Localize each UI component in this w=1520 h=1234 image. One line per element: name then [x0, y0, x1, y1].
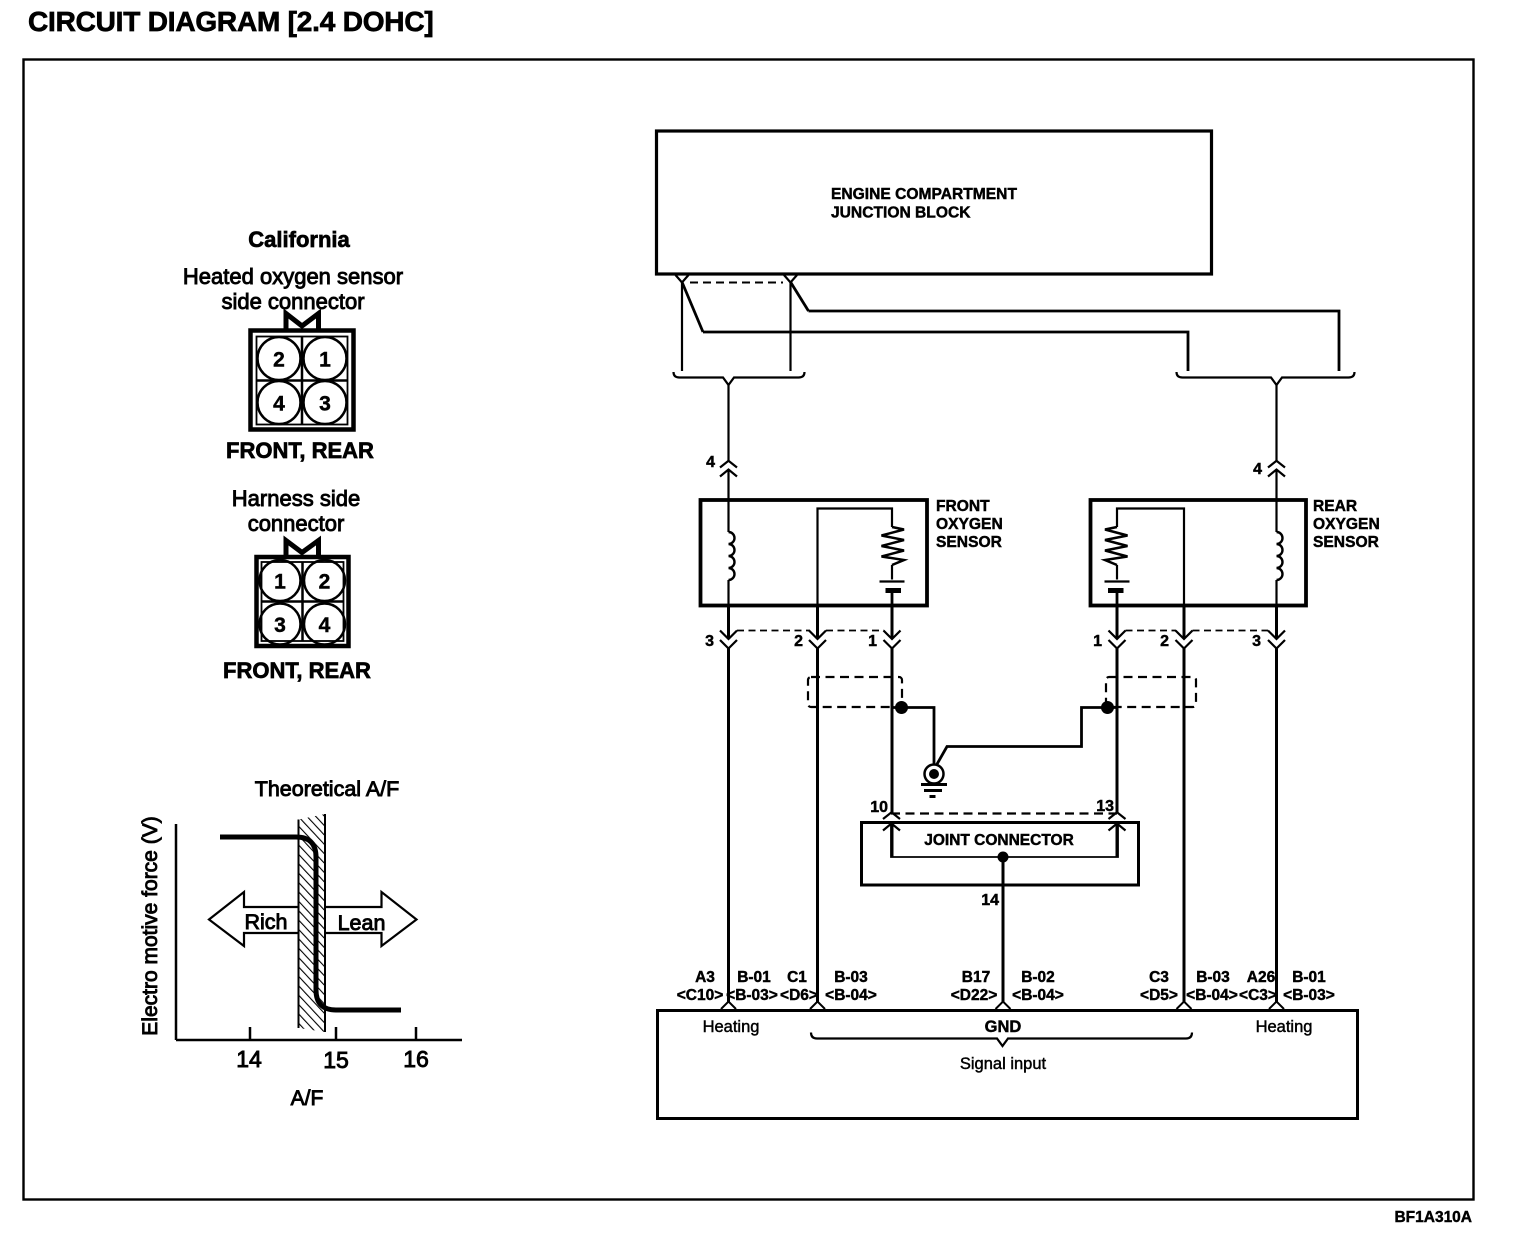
x tick 15: [323, 1027, 349, 1073]
heater element (rear sensor coil): [1277, 498, 1283, 607]
front pin 2 arrow and number: [794, 631, 826, 651]
terminal label B-01 <B-03>: [726, 969, 778, 1004]
svg-text:REAR: REAR: [1313, 498, 1357, 515]
svg-text:OXYGEN: OXYGEN: [936, 516, 1003, 533]
pin 1 cavity: [260, 560, 301, 601]
terminal label B-02 <B-04>: [1012, 969, 1064, 1004]
svg-text:Lean: Lean: [338, 911, 386, 935]
svg-text:<C3>: <C3>: [1239, 987, 1277, 1004]
wire: supply to rear sensor pin 4: [1275, 385, 1277, 498]
svg-text:3: 3: [1252, 633, 1261, 650]
svg-text:<B-04>: <B-04>: [1012, 987, 1064, 1004]
pin 1 cavity: [304, 337, 347, 380]
wire: front shield to ground: [892, 708, 934, 765]
connector U-CAL latch mark: [286, 314, 319, 330]
pin 10 arrow: [883, 812, 900, 830]
svg-text:CIRCUIT DIAGRAM [2.4 DOHC]: CIRCUIT DIAGRAM [2.4 DOHC]: [28, 6, 433, 37]
wire: pin B down to brace: [789, 282, 791, 371]
rear sensor cell (battery): [1105, 565, 1130, 607]
terminal label C1 <D6>: [780, 969, 818, 1004]
wire: rear pin 1 to joint connector pin 13: [1116, 607, 1119, 857]
ECM entry notch (rear pin 3 wire): [1269, 1002, 1284, 1010]
svg-text:B-03: B-03: [834, 969, 868, 986]
svg-text:Heating: Heating: [703, 1018, 760, 1036]
ECM entry notch (front pin 2 wire): [810, 1002, 825, 1010]
svg-text:<B-04>: <B-04>: [825, 987, 877, 1004]
axis label: A/F: [291, 1087, 324, 1110]
wire: front pin 3 to ECM: [727, 607, 730, 1002]
svg-text:JUNCTION BLOCK: JUNCTION BLOCK: [831, 205, 971, 222]
svg-text:16: 16: [403, 1046, 429, 1072]
pin 4 arrow (rear): [1253, 461, 1285, 478]
wire: rear shield to ground: [937, 708, 1118, 766]
wire: rear pin 3 to ECM: [1275, 607, 1278, 1002]
svg-text:FRONT, REAR: FRONT, REAR: [226, 438, 374, 463]
joint connector C1: [862, 798, 1139, 885]
label: FRONT, REAR (harness side): [223, 658, 371, 683]
svg-text:<D6>: <D6>: [780, 987, 818, 1004]
net label: GND: [985, 1018, 1022, 1036]
svg-text:side connector: side connector: [221, 289, 364, 314]
svg-text:BF1A310A: BF1A310A: [1394, 1209, 1472, 1226]
svg-text:Signal input: Signal input: [960, 1055, 1047, 1073]
pin 2 cavity: [304, 560, 345, 601]
svg-text:JOINT CONNECTOR: JOINT CONNECTOR: [924, 832, 1074, 849]
svg-text:1: 1: [1093, 633, 1102, 650]
label: Heated oxygen sensor side connector: [183, 264, 403, 314]
svg-text:Heated oxygen sensor: Heated oxygen sensor: [183, 264, 403, 289]
svg-text:14: 14: [236, 1046, 262, 1072]
stoichiometric hatched band: [299, 814, 326, 1032]
EMF curve: [220, 837, 401, 1010]
svg-text:2: 2: [794, 633, 803, 650]
svg-text:C3: C3: [1149, 969, 1169, 986]
ECM entry notch (front pin 3 wire): [721, 1002, 736, 1010]
ECM box: [658, 1011, 1358, 1119]
junction on joint connector bus: [998, 852, 1009, 863]
front pin 1 arrow and number: [868, 631, 900, 651]
svg-text:<D5>: <D5>: [1140, 987, 1178, 1004]
engine compartment junction block: [657, 131, 1212, 274]
pin 4 cavity: [258, 381, 301, 424]
svg-text:ENGINE COMPARTMENT: ENGINE COMPARTMENT: [831, 186, 1017, 203]
wire: pin B diagonal to upper bus: [791, 282, 809, 311]
wire: front pin 1 to joint connector pin 10: [891, 607, 894, 857]
rear oxygen sensor box: [1091, 500, 1307, 606]
svg-text:OXYGEN: OXYGEN: [1313, 516, 1380, 533]
terminal label B17 <D22>: [951, 969, 998, 1004]
svg-text:Rich: Rich: [244, 910, 287, 934]
svg-text:A26: A26: [1247, 969, 1276, 986]
svg-text:1: 1: [274, 571, 286, 594]
svg-text:Harness side: Harness side: [232, 486, 360, 511]
pin 3 cavity: [260, 604, 301, 645]
svg-text:3: 3: [705, 633, 714, 650]
svg-text:2: 2: [273, 349, 285, 372]
wire: lower bus to rear sensor: [703, 332, 1188, 371]
rear pin 1 arrow and number: [1093, 631, 1125, 651]
ECM entry notch (rear pin 2 wire): [1177, 1002, 1192, 1010]
front sensor element loop wire: [818, 509, 893, 608]
dashed tie between rear pins: [1126, 630, 1269, 632]
wire: upper bus to rear sensor: [809, 311, 1340, 371]
svg-text:4: 4: [273, 393, 285, 416]
front sensor cell (battery): [880, 565, 905, 607]
front sensor resistor: [882, 527, 905, 565]
front oxygen sensor box: [701, 500, 928, 606]
svg-text:Heating: Heating: [1256, 1018, 1313, 1036]
terminal label C3 <D5>: [1140, 969, 1178, 1004]
label: REAR OXYGEN SENSOR: [1313, 498, 1380, 551]
svg-text:GND: GND: [985, 1018, 1022, 1036]
junction block pin A (female): [676, 275, 689, 283]
ground G1: [921, 765, 947, 797]
net label: Heating (front): [703, 1018, 760, 1036]
pin 3 cavity: [304, 381, 347, 424]
wire: pin A down to brace: [681, 282, 683, 371]
svg-text:FRONT: FRONT: [936, 498, 990, 515]
svg-text:2: 2: [1160, 633, 1169, 650]
net label: Heating (rear): [1256, 1018, 1313, 1036]
svg-text:B17: B17: [962, 969, 990, 986]
dashed shield box (rear signal pair): [1106, 677, 1196, 707]
axis label: Electro motive force (V): [139, 816, 162, 1035]
brace joining rear supply wires: [1177, 372, 1355, 385]
dashed shield box (front signal pair): [808, 677, 902, 707]
svg-text:A/F: A/F: [291, 1087, 324, 1110]
connector U-HAR latch mark: [286, 541, 319, 556]
net label: Signal input: [960, 1055, 1047, 1073]
svg-text:<B-03>: <B-03>: [1283, 987, 1335, 1004]
svg-text:<B-04>: <B-04>: [1186, 987, 1238, 1004]
svg-text:B-01: B-01: [1292, 969, 1326, 986]
svg-text:California: California: [248, 227, 350, 252]
terminal label A3 <C10>: [677, 969, 724, 1004]
svg-text:1: 1: [868, 633, 877, 650]
label: FRONT, REAR (sensor side): [226, 438, 374, 463]
heater element (front sensor coil): [729, 498, 735, 607]
wire: pin A diagonal to lower bus: [682, 282, 703, 332]
pin 13 arrow: [1109, 812, 1126, 830]
junction on front pin 1 wire: [895, 701, 908, 714]
rear sensor element loop wire: [1117, 509, 1184, 608]
svg-text:4: 4: [1253, 461, 1262, 478]
Lean arrow: [325, 892, 417, 946]
terminal label B-01 <B-03> (rear): [1283, 969, 1335, 1004]
x tick 14: [236, 1027, 262, 1072]
pin 4 arrow (front): [706, 454, 737, 477]
connector U-CAL body (heated oxygen sensor side connector): [251, 331, 354, 430]
svg-text:A3: A3: [695, 969, 715, 986]
svg-text:2: 2: [319, 571, 331, 594]
junction block pin B (female): [784, 275, 797, 283]
svg-text:3: 3: [274, 614, 286, 637]
x tick 16: [403, 1027, 429, 1072]
svg-text:connector: connector: [248, 511, 345, 536]
dashed connector tie between pins A and B: [690, 282, 783, 284]
wire: joint connector pin 14 to ECM: [981, 857, 1003, 1002]
brace joining front supply wires: [674, 372, 805, 385]
label: Harness side connector: [232, 486, 360, 536]
pin 4 cavity: [304, 604, 345, 645]
svg-text:FRONT, REAR: FRONT, REAR: [223, 658, 371, 683]
svg-text:1: 1: [319, 349, 331, 372]
Rich arrow: [209, 892, 299, 946]
svg-text:4: 4: [319, 614, 331, 637]
wire: rear pin 2 to ECM: [1183, 607, 1186, 1002]
svg-text:4: 4: [706, 454, 715, 471]
ECM entry notch (pin 14 wire): [996, 1002, 1011, 1010]
terminal label B-03 <B-04>: [825, 969, 877, 1004]
dashed tie between front pins: [737, 630, 884, 632]
rear pin 2 arrow and number: [1160, 631, 1192, 651]
junction on rear pin 1 wire: [1101, 701, 1114, 714]
brace grouping signal inputs: [811, 1033, 1192, 1047]
label: California: [248, 227, 350, 252]
terminal label B-03 <B-04> (rear): [1186, 969, 1238, 1004]
svg-text:B-03: B-03: [1196, 969, 1230, 986]
svg-text:<D22>: <D22>: [951, 987, 998, 1004]
front pin 3 arrow and number: [705, 631, 737, 651]
svg-text:Theoretical A/F: Theoretical A/F: [255, 777, 400, 801]
svg-text:14: 14: [981, 892, 999, 909]
rear pin 3 arrow and number: [1252, 631, 1285, 651]
svg-text:C1: C1: [787, 969, 807, 986]
wire: supply to front sensor pin 4: [727, 385, 729, 498]
svg-text:15: 15: [323, 1047, 349, 1073]
svg-text:SENSOR: SENSOR: [936, 534, 1002, 551]
wire: front pin 2 to ECM: [816, 607, 819, 1002]
svg-text:3: 3: [319, 393, 331, 416]
rear sensor resistor: [1105, 527, 1128, 565]
graph axes: [176, 824, 462, 1040]
label: FRONT OXYGEN SENSOR: [936, 498, 1003, 551]
svg-text:<B-03>: <B-03>: [726, 987, 778, 1004]
svg-text:SENSOR: SENSOR: [1313, 534, 1379, 551]
label: Theoretical A/F: [255, 777, 400, 801]
connector U-HAR body (harness side connector): [257, 557, 349, 646]
terminal label A26 <C3>: [1239, 969, 1277, 1004]
svg-text:B-02: B-02: [1021, 969, 1055, 986]
svg-text:B-01: B-01: [737, 969, 771, 986]
svg-text:10: 10: [870, 799, 888, 816]
svg-text:<C10>: <C10>: [677, 987, 724, 1004]
svg-text:Electro motive force (V): Electro motive force (V): [139, 816, 162, 1035]
drawing number BF1A310A: [1394, 1209, 1472, 1226]
pin 2 cavity: [258, 337, 301, 380]
